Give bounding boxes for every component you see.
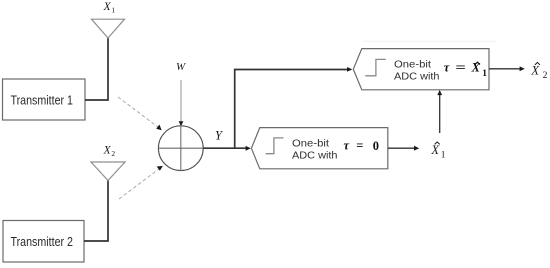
dashed channel path from antenna 1 to adder [118, 97, 162, 130]
antenna A2 [91, 162, 125, 181]
svg-text:Transmitter 2: Transmitter 2 [11, 235, 74, 249]
svg-text:X: X [471, 61, 481, 75]
svg-text:One-bit: One-bit [394, 58, 431, 70]
svg-text:W: W [176, 61, 186, 73]
svg-text:τ: τ [344, 139, 350, 153]
svg-text:ADC with: ADC with [394, 70, 440, 82]
svg-text:Transmitter 1: Transmitter 1 [11, 94, 74, 108]
svg-text:τ: τ [444, 61, 450, 75]
one-bit ADC block U2 (top) [353, 49, 489, 90]
wire Y from adder to ADC1 input [203, 146, 251, 151]
wire branch from Y up to ADC2 input [235, 67, 353, 148]
output arrow X2hat from U2 [489, 66, 525, 71]
feedback arrow X1hat up into U2 [437, 90, 442, 133]
svg-text:=: = [356, 139, 363, 153]
svg-text:1: 1 [111, 6, 115, 15]
svg-text:2: 2 [111, 149, 115, 158]
svg-text:One-bit: One-bit [292, 138, 329, 150]
svg-text:X: X [103, 145, 112, 157]
one-bit ADC block U1 (bottom) [251, 128, 387, 169]
transmitter box TX1 [3, 79, 86, 120]
wire TX1 output to antenna 1 [85, 38, 108, 100]
svg-text:ADC with: ADC with [292, 150, 338, 162]
dashed channel path from antenna 2 to adder [119, 166, 163, 199]
svg-text:1: 1 [482, 69, 487, 79]
svg-text:X: X [430, 143, 440, 157]
svg-text:X: X [530, 63, 540, 77]
svg-text:2: 2 [543, 71, 548, 81]
wire TX2 output to antenna 2 [84, 180, 108, 241]
faint artifact line above U2 [363, 40, 496, 42]
step (quantizer) icon in U2 [365, 59, 386, 75]
transmitter box TX2 [3, 221, 84, 263]
noise arrow W into adder [179, 80, 184, 126]
step (quantizer) icon in U1 [266, 138, 284, 154]
svg-text:0: 0 [373, 139, 379, 153]
antenna A1 [92, 19, 125, 38]
svg-text:1: 1 [441, 150, 446, 160]
svg-text:=: = [455, 61, 466, 75]
svg-text:X: X [103, 1, 112, 13]
output arrow X1hat from U1 [388, 146, 419, 151]
adder node (summing circle) [158, 126, 203, 171]
